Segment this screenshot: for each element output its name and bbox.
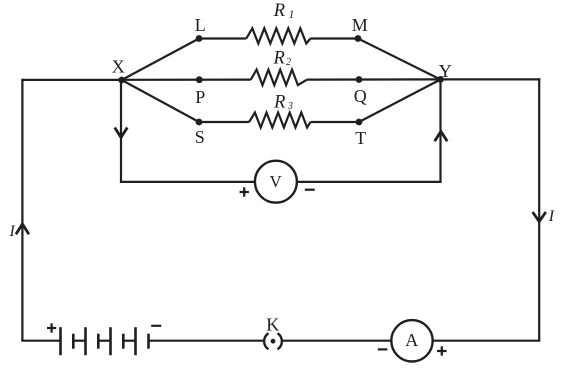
resistor R1 zigzag <box>246 28 310 43</box>
wire: Y to right wire horizontal <box>441 78 541 80</box>
svg-text:V: V <box>269 172 282 191</box>
key K right contact arc <box>278 333 282 349</box>
battery cell 2 positive plate <box>84 327 87 355</box>
svg-text:K: K <box>266 314 279 334</box>
battery cell 3 positive plate <box>109 327 112 355</box>
voltmeter + terminal sign <box>240 187 249 196</box>
wire: top-left horizontal from left wire to node X <box>21 79 121 81</box>
wire: bottom row left corner to battery <box>21 340 60 342</box>
wire: X drop to voltmeter row <box>120 80 122 182</box>
battery cell 1 positive plate <box>59 327 62 355</box>
node Y junction dot <box>437 76 444 83</box>
current arrow (X drop, down) <box>115 128 128 138</box>
wire: right vertical wire <box>538 78 540 340</box>
current arrow (Y drop, up) <box>435 131 448 141</box>
wire: voltmeter row left segment <box>120 181 255 183</box>
ammeter + terminal sign <box>437 346 447 355</box>
wire: R1 right lead to M <box>311 37 359 39</box>
voltmeter - terminal sign <box>305 189 315 191</box>
wire: X to S diagonal <box>122 80 199 122</box>
ammeter - terminal sign <box>378 348 388 350</box>
wire: T to Y diagonal <box>359 80 441 123</box>
svg-text:R1: R1 <box>273 1 295 21</box>
current arrow I (left wire, up) <box>16 224 29 234</box>
current arrow I (right wire, down) <box>533 212 546 222</box>
battery cell 4 positive plate <box>134 327 137 355</box>
key K left contact arc <box>264 333 268 349</box>
wire: battery to key K <box>149 340 264 342</box>
svg-text:I: I <box>548 208 555 225</box>
wire: Y drop to voltmeter row <box>439 80 441 183</box>
wire: M to Y diagonal <box>358 39 441 80</box>
svg-text:Y: Y <box>439 61 452 81</box>
node S dot <box>196 119 203 126</box>
battery cell 1 negative plate <box>72 334 75 349</box>
node P dot <box>196 76 203 83</box>
wire: R3 right lead to T <box>311 121 360 123</box>
svg-text:M: M <box>352 15 368 35</box>
battery cell 4 negative plate <box>147 334 150 349</box>
voltmeter V circle <box>255 161 297 203</box>
wire: R2 right lead through Q to Y <box>307 78 440 80</box>
wire: key K to ammeter <box>283 340 392 342</box>
svg-text:S: S <box>195 127 205 147</box>
wire: battery cell 2-3 link <box>98 340 110 342</box>
wire: battery cell 3-4 link <box>123 340 135 342</box>
battery + terminal sign <box>47 323 56 332</box>
svg-text:A: A <box>405 330 418 350</box>
ammeter A circle <box>391 320 432 361</box>
svg-text:Q: Q <box>354 86 367 106</box>
wire: ammeter to bottom right corner <box>433 340 541 342</box>
node X junction dot <box>118 77 125 84</box>
battery - terminal sign <box>151 325 161 327</box>
battery cell 2 negative plate <box>97 334 100 349</box>
resistor R2 zigzag <box>251 70 307 86</box>
wire: S to R3 left lead <box>199 121 249 123</box>
svg-text:X: X <box>112 57 125 77</box>
key K center dot <box>271 339 276 344</box>
svg-text:P: P <box>195 87 205 107</box>
battery cell 3 negative plate <box>122 334 125 349</box>
wire: battery cell 1-2 link <box>73 340 85 342</box>
node L dot <box>196 35 203 42</box>
svg-text:I: I <box>9 223 16 240</box>
resistor R3 zigzag <box>249 113 310 128</box>
node Q dot <box>356 76 363 83</box>
wire: X to L diagonal <box>122 39 199 81</box>
svg-text:T: T <box>355 128 366 148</box>
wire: X to P (middle branch left) <box>122 78 251 80</box>
node M dot <box>355 35 362 42</box>
svg-text:R3: R3 <box>273 92 293 112</box>
wire: left vertical wire <box>21 79 23 341</box>
svg-text:R2: R2 <box>273 48 292 68</box>
wire: L to R1 left lead <box>199 37 246 39</box>
wire: voltmeter row right segment <box>297 181 442 183</box>
node T dot <box>356 119 363 126</box>
svg-text:L: L <box>195 15 206 35</box>
